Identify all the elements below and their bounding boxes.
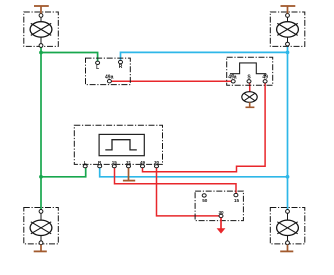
ignition switch D xyxy=(195,191,243,221)
wire cyan right column xyxy=(287,44,289,211)
pin 31 xyxy=(127,165,131,168)
wire red hazard S to pilot lamp xyxy=(249,81,251,92)
pin 49 xyxy=(141,165,145,168)
wire cyan top run from turn switch R xyxy=(121,52,288,62)
svg-text:49a: 49a xyxy=(105,75,114,81)
battery feed arrow at terminal 30 xyxy=(217,218,226,234)
ground below pilot lamp K6 xyxy=(246,102,255,107)
node cyan junction top xyxy=(286,51,290,55)
ground below lamp M3 xyxy=(34,245,47,252)
svg-text:15: 15 xyxy=(234,198,240,203)
pin L xyxy=(96,61,100,64)
pin R xyxy=(98,165,102,168)
wire red flasher 15 to ignition 15 xyxy=(115,166,237,195)
lamp M2 front-right turn signal xyxy=(270,12,305,46)
lamp M1 front-left turn signal xyxy=(24,12,59,47)
flasher relay J2 xyxy=(74,125,162,168)
wire brown flasher 31 to ground xyxy=(128,166,130,180)
svg-text:L: L xyxy=(84,160,87,165)
svg-text:50: 50 xyxy=(202,198,208,203)
pin L xyxy=(83,165,87,168)
lamp M4 rear-right turn signal xyxy=(270,208,305,245)
turn signal switch E2 xyxy=(86,58,131,85)
lamp M3 rear-left turn signal xyxy=(24,208,59,245)
pulse generator symbol xyxy=(99,134,144,155)
pin 15 xyxy=(112,165,116,168)
ground below lamp M4 xyxy=(280,245,293,252)
pin R xyxy=(119,60,123,63)
node green junction bottom xyxy=(39,175,43,179)
svg-text:49: 49 xyxy=(262,75,268,81)
pin S xyxy=(247,80,251,83)
pin 50 xyxy=(202,194,206,197)
svg-text:R: R xyxy=(119,64,123,70)
svg-text:31: 31 xyxy=(126,160,132,165)
node cyan junction bottom xyxy=(286,175,290,179)
node green junction top xyxy=(39,51,43,55)
pin 49a xyxy=(107,80,111,83)
svg-text:30: 30 xyxy=(154,160,160,165)
pin 49 xyxy=(264,74,266,76)
pin 15 xyxy=(234,193,238,196)
pin 49a xyxy=(232,74,234,76)
switch bridge contact xyxy=(230,63,266,74)
wire green branch to turn switch L xyxy=(41,53,98,63)
ground above lamp M2 xyxy=(281,6,296,14)
wire green branch to flasher L xyxy=(41,166,86,177)
svg-text:30: 30 xyxy=(218,210,224,215)
pilot lamp K6 xyxy=(242,92,257,103)
pin 30 xyxy=(219,214,223,217)
svg-text:49: 49 xyxy=(140,160,146,165)
pin 30 xyxy=(155,165,159,168)
ground at flasher pin 31 xyxy=(123,180,135,182)
svg-text:L: L xyxy=(96,65,99,71)
hazard switch E3 xyxy=(227,57,273,85)
wire green left column xyxy=(40,46,42,212)
svg-text:15: 15 xyxy=(112,160,118,165)
wire red 49a link turn switch to hazard switch xyxy=(109,80,233,82)
wire red hazard 49 to flasher 49 xyxy=(143,81,266,172)
wire red flasher 30 to ignition 30 xyxy=(157,166,222,216)
wire cyan bottom run from flasher R xyxy=(100,166,288,177)
ground above lamp M1 xyxy=(34,6,49,14)
svg-text:49a: 49a xyxy=(228,75,237,81)
